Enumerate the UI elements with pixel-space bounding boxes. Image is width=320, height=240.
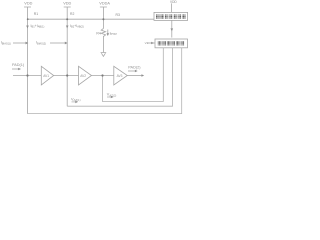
svg-text:VAZ(2): VAZ(2)	[107, 93, 117, 98]
svg-text:PAD(2): PAD(2)	[128, 66, 141, 70]
svg-text:AV2: AV2	[80, 74, 86, 78]
svg-text:R4: R4	[96, 32, 100, 36]
svg-text:R3: R3	[116, 13, 120, 17]
svg-text:R1: R1	[34, 12, 38, 16]
svg-text:PAD(1): PAD(1)	[12, 63, 25, 67]
svg-text:VDD: VDD	[24, 2, 32, 6]
svg-text:VDDA: VDDA	[99, 2, 110, 6]
svg-text:V2: V2	[145, 41, 149, 45]
svg-text:AV3: AV3	[117, 74, 123, 78]
svg-text:VDD: VDD	[170, 0, 177, 4]
svg-text:VAZ(1): VAZ(1)	[71, 97, 81, 102]
svg-text:VDD: VDD	[63, 2, 71, 6]
svg-text:AV1: AV1	[43, 74, 49, 78]
svg-text:R2: R2	[70, 12, 74, 16]
